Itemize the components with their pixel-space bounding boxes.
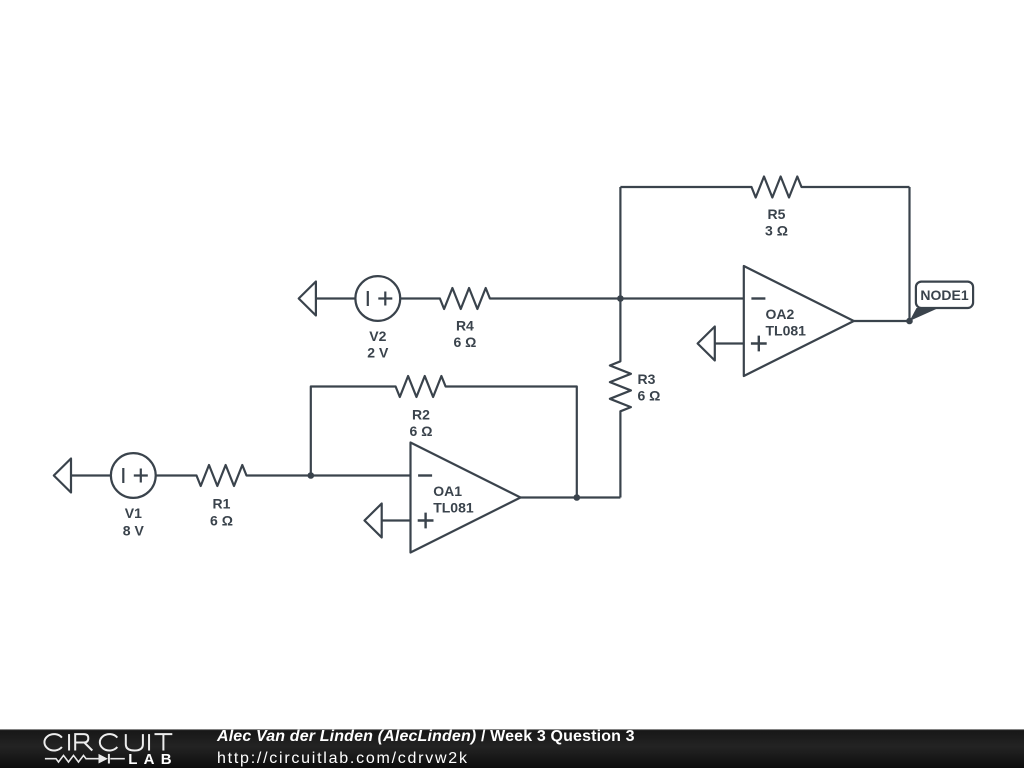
svg-text:TL081: TL081 [433,500,474,516]
svg-text:TL081: TL081 [766,323,807,339]
svg-text:8 V: 8 V [123,523,145,539]
svg-text:OA1: OA1 [433,483,462,499]
svg-text:6 Ω: 6 Ω [638,387,661,403]
svg-text:6 Ω: 6 Ω [453,334,476,350]
svg-text:2 V: 2 V [367,345,389,361]
svg-text:V1: V1 [125,505,142,521]
svg-text:6 Ω: 6 Ω [410,423,433,439]
svg-text:R1: R1 [213,496,231,512]
svg-text:R2: R2 [412,406,430,422]
svg-text:R4: R4 [456,317,474,333]
svg-text:NODE1: NODE1 [920,287,968,303]
svg-text:OA2: OA2 [766,306,795,322]
svg-text:R5: R5 [768,206,786,222]
svg-text:6 Ω: 6 Ω [210,512,233,528]
svg-text:3 Ω: 3 Ω [765,223,788,239]
svg-text:LAB: LAB [128,751,177,768]
svg-text:R3: R3 [638,371,656,387]
svg-text:V2: V2 [369,328,386,344]
